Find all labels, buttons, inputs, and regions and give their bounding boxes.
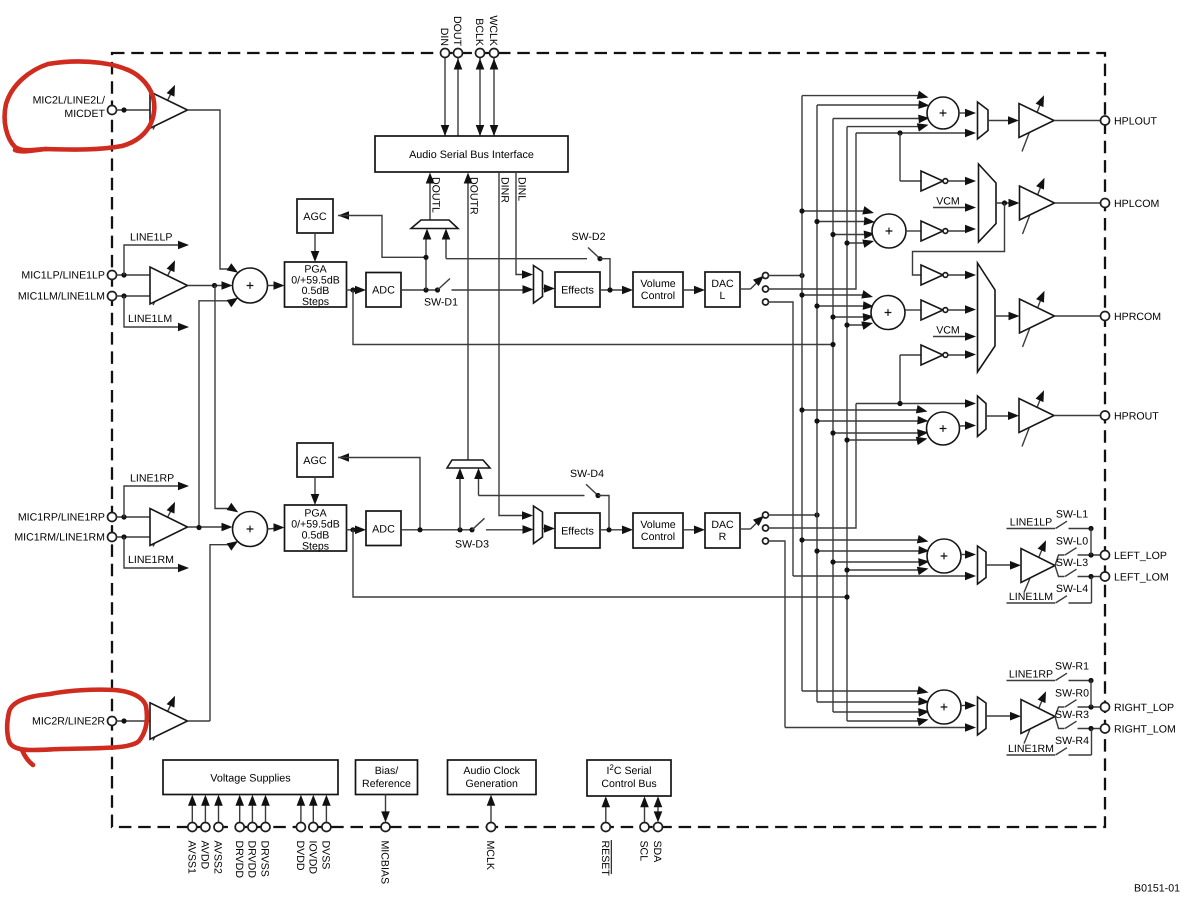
svg-text:MIC1RP/LINE1RP: MIC1RP/LINE1RP	[18, 512, 105, 524]
svg-text:Effects: Effects	[561, 284, 594, 296]
wire LINE1RM bypass out	[124, 537, 181, 568]
svg-text:Audio Clock: Audio Clock	[463, 765, 520, 777]
wire supply DRVDD	[251, 799, 253, 823]
wire AGC R feedback input	[338, 453, 349, 462]
svg-text:AGC: AGC	[303, 211, 327, 223]
wire switch SW-D2 line	[446, 258, 587, 260]
mux HPRCOM select	[978, 263, 996, 372]
node RIGHT line summer	[927, 690, 961, 724]
wire SW-R1 to RIGHT_LOP node	[1090, 681, 1092, 708]
amp MIC2L input buffer	[153, 91, 173, 130]
svg-text:HPROUT: HPROUT	[1114, 410, 1159, 422]
wire LEFT bypass from DAC L throw3	[793, 575, 972, 577]
wire HPLCOM output	[1055, 202, 1101, 204]
mux DAC L input select	[534, 266, 543, 304]
svg-text:DRVSS: DRVSS	[259, 841, 271, 877]
wire amp to SW-L3	[1055, 566, 1065, 577]
node HPRCOM summer	[871, 296, 905, 330]
svg-text:DVSS: DVSS	[320, 841, 332, 870]
wire SW-L4 to LEFT_LOM node	[1091, 577, 1093, 604]
wire HPROUT summer to mux	[960, 425, 972, 427]
svg-text:DOUT: DOUT	[451, 16, 463, 47]
wire RIGHT mux to amp	[986, 715, 1017, 717]
svg-text:L: L	[720, 290, 726, 302]
svg-text:Steps: Steps	[302, 540, 329, 552]
wire supply AVSS2	[218, 799, 220, 823]
node left record summer	[233, 268, 268, 303]
pin DVSS	[322, 823, 331, 832]
svg-text:B0151-01: B0151-01	[1134, 883, 1180, 895]
block Bias/Reference	[356, 760, 418, 795]
svg-text:SW-L4: SW-L4	[1056, 583, 1088, 595]
wire HPROUT bypass line	[856, 403, 972, 405]
wire SCL input	[644, 801, 646, 823]
wire DAC R throw3 riser	[769, 541, 786, 728]
svg-text:MIC2R/LINE2R: MIC2R/LINE2R	[32, 716, 105, 728]
svg-text:LINE1RP: LINE1RP	[130, 473, 174, 485]
node right record summer	[233, 512, 268, 547]
svg-text:SW-R1: SW-R1	[1055, 661, 1089, 673]
svg-text:DOUTL: DOUTL	[430, 177, 442, 213]
switch DAC L output throw	[740, 288, 751, 290]
svg-text:SW-L0: SW-L0	[1056, 535, 1088, 547]
wire supply IOVDD	[312, 799, 314, 823]
wire HPROUT output	[1054, 415, 1101, 417]
wire PGA L analog tap to bus	[353, 290, 833, 345]
pin HPLOUT	[1101, 116, 1110, 125]
wire into HPLCOM inverter	[899, 133, 901, 181]
wire DAC L throw3 riser	[769, 302, 794, 576]
wire LINE1LP bypass out	[124, 245, 181, 275]
svg-text:LEFT_LOP: LEFT_LOP	[1114, 550, 1167, 562]
svg-text:LEFT_LOM: LEFT_LOM	[1114, 571, 1169, 583]
svg-text:R: R	[719, 531, 727, 543]
svg-text:VCM: VCM	[936, 195, 960, 207]
mux HPLOUT select	[978, 102, 989, 139]
amp MIC2R input buffer	[153, 702, 173, 741]
amp MIC1L input buffer	[153, 266, 173, 305]
pin WCLK	[490, 49, 499, 58]
pin MIC2R/LINE2R	[108, 717, 117, 726]
svg-text:SDA: SDA	[651, 841, 663, 864]
svg-text:SW-L3: SW-L3	[1056, 557, 1088, 569]
svg-text:Audio Serial Bus Interface: Audio Serial Bus Interface	[409, 149, 534, 161]
amp HPLOUT driver	[1022, 101, 1042, 152]
svg-text:MICDET: MICDET	[64, 108, 105, 120]
block Audio Clock Generation	[448, 760, 537, 795]
wire switch SW-D4 line	[479, 495, 585, 497]
switch SW-R0	[1065, 700, 1077, 707]
inverter HPRCOM top	[921, 265, 943, 285]
chip outline dashed border	[112, 53, 1105, 827]
wire PGA R out	[347, 529, 362, 531]
block Volume Control L	[633, 272, 683, 307]
svg-text:AVSS1: AVSS1	[186, 841, 198, 874]
svg-text:Reference: Reference	[362, 778, 411, 790]
wire DOUT	[457, 58, 459, 137]
wire MIC1LM to amp	[116, 295, 150, 297]
node HPROUT summer	[927, 412, 960, 445]
svg-text:DINL: DINL	[516, 177, 528, 201]
wire DIN	[444, 58, 446, 137]
svg-text:AGC: AGC	[303, 455, 327, 467]
pin DRVSS	[261, 823, 270, 832]
svg-text:Steps: Steps	[302, 296, 329, 308]
amp LEFT line driver	[1024, 546, 1044, 593]
switch SW-L0	[1065, 548, 1077, 555]
wire DOUTR riser	[467, 177, 469, 461]
wire AGC L feedback input	[338, 211, 349, 220]
block Effects R	[555, 513, 600, 548]
pin LEFT_LOM	[1101, 572, 1110, 581]
svg-text:Voltage Supplies: Voltage Supplies	[210, 772, 291, 784]
svg-text:SW-L1: SW-L1	[1056, 509, 1088, 521]
wire SDA bidirectional	[657, 801, 659, 819]
svg-text:VCM: VCM	[936, 324, 960, 336]
wire DAC L throw2 to HPLOUT bypass riser	[769, 133, 857, 289]
wire LINE1RP bypass out	[124, 486, 181, 517]
inverter HPRCOM bottom	[900, 354, 921, 356]
svg-text:DAC: DAC	[711, 519, 734, 531]
wire RIGHT summer to mux	[961, 705, 972, 707]
svg-text:SW-R4: SW-R4	[1055, 735, 1089, 747]
svg-text:LINE1LP: LINE1LP	[1010, 517, 1052, 529]
wire MCLK input	[490, 799, 492, 823]
wire SW-L1 to LEFT_LOP node	[1090, 529, 1092, 556]
wire summer to PGA L	[268, 285, 281, 287]
svg-text:LINE1LM: LINE1LM	[1009, 591, 1053, 603]
pin BCLK	[476, 49, 485, 58]
wire MICBIAS output	[385, 795, 387, 819]
svg-text:WCLK: WCLK	[487, 15, 499, 46]
mux HPLCOM select	[979, 164, 997, 242]
wire WCLK	[493, 58, 495, 137]
svg-text:DINR: DINR	[499, 177, 511, 203]
pin AVSS1	[188, 823, 197, 832]
svg-text:SW-D4: SW-D4	[570, 468, 604, 480]
pin HPRCOM	[1101, 312, 1110, 321]
wire LEFT mux to amp	[986, 564, 1017, 566]
mux DOUTR select	[447, 460, 490, 468]
svg-text:LINE1RM: LINE1RM	[1008, 743, 1054, 755]
wire MIC2R amp output	[188, 720, 211, 722]
svg-text:DAC: DAC	[711, 278, 734, 290]
wire ADC L to DOUTL mux and AGC junction	[425, 233, 427, 290]
block DAC R	[705, 513, 740, 548]
svg-text:HPRCOM: HPRCOM	[1114, 311, 1161, 323]
wire VC R to DAC R	[683, 529, 701, 531]
wire LINE1LM bypass out	[124, 296, 181, 327]
wire supply DVDD	[300, 799, 302, 823]
svg-text:DOUTR: DOUTR	[468, 177, 480, 215]
wire DINL riser	[516, 172, 529, 275]
amp MIC1R input buffer	[153, 508, 173, 547]
bus PGA_R vertical	[846, 127, 848, 721]
wire sidetone into DOUTR mux right input	[478, 473, 480, 496]
svg-text:HPLOUT: HPLOUT	[1114, 115, 1157, 127]
svg-text:Effects: Effects	[561, 525, 594, 537]
wire HPLCOM mux to amp	[996, 202, 1015, 204]
wire MIC2L to amp	[116, 109, 150, 111]
svg-text:BCLK: BCLK	[473, 18, 485, 46]
block PGA L gain	[285, 262, 347, 307]
wire ADC L out / switch SW-D1	[401, 289, 438, 291]
wire bus feeds into LEFT line summer	[802, 539, 920, 541]
inverter HPLCOM top	[921, 171, 943, 191]
svg-text:Control Bus: Control Bus	[601, 778, 656, 790]
block AGC R	[297, 443, 333, 477]
mux RIGHT line select	[978, 697, 987, 735]
bus PGA_L vertical	[832, 119, 834, 713]
pin MIC1LM/LINE1LM	[108, 292, 117, 301]
svg-text:SW-R3: SW-R3	[1055, 709, 1089, 721]
wire MIC2L amp output to left record summer	[188, 110, 230, 269]
svg-text:LINE1RP: LINE1RP	[1009, 669, 1053, 681]
svg-text:RIGHT_LOM: RIGHT_LOM	[1114, 723, 1176, 735]
wire supply AVDD	[204, 799, 206, 823]
pin MIC1RM/LINE1RM	[108, 533, 117, 542]
wire bus feeds into HPRCOM summer	[802, 294, 865, 296]
wire Effects L to Volume Control	[600, 289, 629, 291]
svg-text:ADC: ADC	[372, 523, 395, 535]
wire MIC1RP to amp	[116, 516, 150, 518]
wire sidetone into DOUTL mux right input	[445, 233, 447, 259]
pin RIGHT_LOM	[1101, 724, 1110, 733]
wire bus feeds into RIGHT line summer	[802, 690, 920, 692]
switch DAC R output throw	[740, 528, 751, 530]
wire SW-R4 to RIGHT_LOM node	[1091, 729, 1093, 756]
wire MIC2R to amp	[116, 720, 150, 722]
wire bus feeds into HPROUT summer	[802, 409, 919, 411]
wire ADC R out / switch SW-D3	[401, 529, 472, 531]
wire PGA R analog tap to bus	[353, 530, 847, 597]
wire ADC R to DOUTR mux	[459, 473, 461, 530]
pin MIC2L/LINE2L/MICDET	[108, 106, 117, 115]
svg-text:SW-D1: SW-D1	[424, 297, 458, 309]
red annotation circle around MIC2R/LINE2R	[7, 690, 147, 750]
svg-text:Control: Control	[641, 531, 675, 543]
wire MIC1R amp output	[188, 526, 230, 528]
svg-text:Control: Control	[641, 290, 675, 302]
svg-text:I2C Serial: I2C Serial	[606, 763, 651, 777]
svg-text:LINE1LM: LINE1LM	[128, 313, 172, 325]
inverter HPLCOM from summer	[906, 230, 921, 232]
pin DRVDD	[248, 823, 257, 832]
wire HPLOUT summer to mux	[959, 112, 972, 114]
block AGC L	[297, 199, 333, 233]
wire amp to SW-L0	[1055, 555, 1065, 566]
node HPLOUT summer	[927, 97, 959, 129]
pin DVDD	[296, 823, 305, 832]
pin RESET	[601, 823, 610, 832]
svg-text:DRVDD: DRVDD	[233, 841, 245, 879]
svg-text:HPLCOM: HPLCOM	[1114, 198, 1159, 210]
switch SW-L3	[1065, 569, 1077, 576]
svg-text:Generation: Generation	[465, 778, 518, 790]
wire amp to SW-R3	[1055, 717, 1065, 729]
wire DAC L throw1 to bus	[769, 275, 803, 277]
block Effects L	[555, 272, 600, 307]
pin MICBIAS	[381, 823, 390, 832]
block ADC L	[366, 273, 401, 308]
wire Effects R to Volume Control	[600, 529, 629, 531]
amp HPLCOM driver	[1023, 184, 1043, 235]
svg-text:AVSS2: AVSS2	[212, 841, 224, 874]
mux HPROUT select	[978, 396, 987, 437]
node LEFT line summer	[927, 539, 961, 573]
wire HPROUT mux to amp	[986, 415, 1015, 417]
wire supply AVSS1	[191, 799, 193, 823]
svg-text:Bias/: Bias/	[375, 765, 399, 777]
pin MIC1RP/LINE1RP	[108, 513, 117, 522]
wire amp to SW-R0	[1055, 707, 1065, 717]
svg-text:SW-D3: SW-D3	[455, 539, 489, 551]
wire bus feeds into HPLOUT summer	[802, 95, 920, 97]
pin DIN	[441, 49, 450, 58]
svg-text:SW-D2: SW-D2	[572, 231, 606, 243]
mux DOUTL select	[411, 220, 458, 229]
block U1 Audio Serial Bus Interface	[375, 136, 568, 172]
wire supply DRVDD	[239, 799, 241, 823]
svg-text:DVDD: DVDD	[294, 841, 306, 871]
wire cross from right amp to left summer	[199, 301, 230, 528]
wire MIC2R to right summer	[210, 545, 230, 721]
pin AVSS2	[214, 823, 223, 832]
red annotation circle around MIC2L/LINE2L/MICDET	[5, 61, 155, 150]
pin MCLK	[487, 823, 496, 832]
wire LEFT summer to mux	[961, 554, 972, 556]
svg-text:DIN: DIN	[438, 28, 450, 46]
pin LEFT_LOP	[1101, 551, 1110, 560]
svg-text:ADC: ADC	[372, 284, 395, 296]
wire AGC R output to PGA	[314, 477, 316, 501]
wire supply DRVSS	[265, 799, 267, 823]
svg-text:RIGHT_LOP: RIGHT_LOP	[1114, 702, 1174, 714]
block Volume Control R	[633, 513, 683, 548]
block DAC L	[705, 272, 740, 307]
wire HPLCOM mux output fold-down to HPRCOM inverter	[913, 203, 1005, 275]
svg-text:DRVDD: DRVDD	[246, 841, 258, 879]
mux DAC R input select	[534, 506, 543, 544]
svg-text:LINE1LP: LINE1LP	[130, 232, 172, 244]
wire MIC1LP to amp	[116, 274, 150, 276]
pin IOVDD	[309, 823, 318, 832]
wire AGC L output to PGA	[314, 233, 316, 258]
svg-text:AVDD: AVDD	[199, 841, 211, 870]
node HPLCOM summer	[872, 214, 906, 248]
pin MIC1LP/LINE1LP	[108, 271, 117, 280]
pin DOUT	[454, 49, 463, 58]
block PGA R gain	[285, 505, 347, 551]
switch SW-R3	[1065, 721, 1077, 728]
pin SCL	[640, 823, 649, 832]
pin DRVDD	[235, 823, 244, 832]
wire MIC1L amp output	[188, 285, 230, 287]
amp HPROUT driver	[1022, 396, 1042, 447]
svg-text:SW-R0: SW-R0	[1055, 687, 1089, 699]
mux LEFT line select	[978, 546, 987, 584]
block Voltage Supplies	[163, 760, 338, 795]
wire DINR riser	[499, 172, 529, 516]
pin HPLCOM	[1101, 199, 1110, 208]
wire BCLK	[479, 58, 481, 137]
amp HPRCOM driver	[1023, 297, 1043, 348]
wire RESET input	[605, 801, 607, 823]
svg-text:Volume: Volume	[640, 278, 675, 290]
svg-text:RESET: RESET	[599, 841, 611, 877]
svg-text:MIC1LM/LINE1LM: MIC1LM/LINE1LM	[18, 291, 105, 303]
wire supply DVSS	[325, 799, 327, 823]
wire inverter feed from HPROUT bypass	[899, 355, 901, 404]
bus DAC_L vertical	[801, 96, 803, 691]
pin HPROUT	[1101, 411, 1110, 420]
amp RIGHT line driver	[1024, 697, 1044, 744]
pin SDA	[654, 823, 663, 832]
wire RIGHT bypass from DAC R throw3	[785, 727, 972, 729]
inverter HPRCOM from summer	[905, 309, 921, 311]
pin AVDD	[201, 823, 210, 832]
svg-text:MIC1LP/LINE1LP: MIC1LP/LINE1LP	[21, 270, 105, 282]
block ADC R	[366, 511, 401, 546]
pin RIGHT_LOP	[1101, 703, 1110, 712]
wire DOUTL riser	[429, 177, 431, 221]
svg-text:LINE1RM: LINE1RM	[128, 554, 174, 566]
svg-text:MCLK: MCLK	[484, 841, 496, 870]
bus DAC_R vertical	[816, 105, 818, 702]
svg-text:MIC2L/LINE2L/: MIC2L/LINE2L/	[33, 95, 105, 107]
svg-text:Volume: Volume	[640, 519, 675, 531]
wire HPLOUT output	[1054, 120, 1101, 122]
wire HPRCOM mux to amp	[995, 315, 1015, 317]
wire VC L to DAC L	[683, 289, 701, 291]
wire PGA L out	[347, 289, 362, 291]
wire DAC R throw2 to HPROUT bypass riser	[769, 404, 857, 529]
svg-text:MICBIAS: MICBIAS	[379, 841, 391, 885]
wire DAC R throw1 to bus	[769, 514, 818, 516]
wire HPLOUT mux to amp	[988, 120, 1015, 122]
wire HPRCOM output	[1055, 315, 1101, 317]
wire HPLOUT bypass line	[856, 132, 972, 134]
wire cross from left amp to right summer	[215, 286, 230, 509]
svg-text:MIC1RM/LINE1RM: MIC1RM/LINE1RM	[14, 532, 105, 544]
wire mux R to Effects	[543, 528, 551, 530]
wire MIC1RM to amp	[116, 536, 150, 538]
wire bus feeds into HPLCOM summer	[802, 210, 866, 212]
block I2C Serial Control Bus	[587, 760, 671, 796]
svg-text:SCL: SCL	[638, 841, 650, 862]
wire summer to PGA R	[268, 528, 281, 529]
svg-text:IOVDD: IOVDD	[307, 841, 319, 875]
wire mux L to Effects	[543, 288, 551, 290]
